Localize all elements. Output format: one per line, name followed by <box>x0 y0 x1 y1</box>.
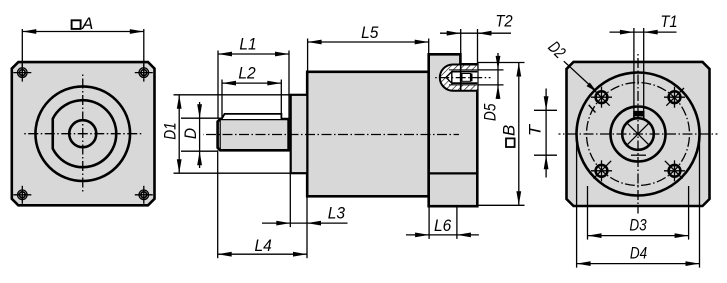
flange plate (front view, square with chamfered corners) <box>12 62 155 205</box>
tapped hole top-right <box>664 87 685 108</box>
corner hole top-left <box>13 64 31 82</box>
tapped hole outline stroke <box>440 65 477 91</box>
center crosshair horizontal <box>23 133 143 135</box>
collar disc D1 <box>291 95 308 173</box>
center crosshair vertical <box>637 52 639 214</box>
shaft chamfer line <box>219 119 221 150</box>
dimension L4 <box>217 150 219 258</box>
dimension D5 <box>478 69 504 71</box>
dimension T1 <box>633 28 635 111</box>
tapped hole bottom-left <box>591 160 612 181</box>
svg-text:L1: L1 <box>239 35 256 54</box>
tapped hole: outer outline hatched <box>440 65 477 91</box>
shaft centerline <box>203 134 459 136</box>
diagonal centerline 1 <box>592 88 684 180</box>
svg-text:D: D <box>181 128 200 139</box>
corner hole bottom-right <box>135 186 153 204</box>
flange step line <box>430 172 477 174</box>
keyway slot <box>634 111 644 117</box>
svg-text:D3: D3 <box>629 216 647 235</box>
dimension D <box>181 117 223 119</box>
svg-text:B: B <box>499 125 518 136</box>
T inner tick <box>631 154 646 156</box>
set screw in bore <box>460 74 463 82</box>
corner hole bottom-left <box>13 186 31 204</box>
dimension square-B <box>478 62 525 64</box>
key on shaft <box>222 114 282 119</box>
outer circle <box>35 86 130 181</box>
tapped hole bottom-right <box>664 160 685 181</box>
dimension L6 <box>428 207 430 239</box>
svg-text:D1: D1 <box>161 122 180 139</box>
label square-A <box>72 20 81 29</box>
svg-text:D4: D4 <box>630 244 647 263</box>
svg-text:T: T <box>526 123 545 136</box>
svg-text:L6: L6 <box>434 216 452 235</box>
dimension T2 <box>460 29 462 55</box>
thread depth line <box>460 65 462 91</box>
dimension D4 <box>576 134 578 268</box>
dimension L3 <box>289 173 291 227</box>
bore circle <box>69 120 96 147</box>
corner hole top-right <box>135 64 153 82</box>
dimension L2 <box>221 80 223 119</box>
dimension D1 <box>174 94 292 96</box>
mounting flange (side view) <box>429 54 478 206</box>
svg-text:D5: D5 <box>480 103 499 121</box>
svg-text:L2: L2 <box>238 64 256 83</box>
tick near hole <box>589 105 596 113</box>
center crosshair horizontal <box>559 133 718 135</box>
shaft D <box>218 119 289 150</box>
tapped hole top-left <box>591 87 612 108</box>
large pilot circle D4 <box>577 73 700 196</box>
center crosshair vertical <box>82 73 84 194</box>
tap hole centerline <box>434 77 491 79</box>
svg-text:L3: L3 <box>328 204 346 223</box>
dimension A: dim line <box>22 31 144 33</box>
dimension L5 <box>307 39 309 77</box>
dimension D3 <box>587 186 589 240</box>
thread major lines <box>449 69 477 71</box>
svg-text:T2: T2 <box>495 12 513 31</box>
svg-text:L5: L5 <box>361 23 379 42</box>
dimension A: extension lines <box>21 29 23 76</box>
middle circle with flat (D-shape hub) <box>53 100 117 167</box>
leader D2 <box>564 61 595 89</box>
bolt circle (dash-dot) <box>587 83 690 186</box>
dimension T (between views) <box>534 109 557 111</box>
svg-text:T1: T1 <box>660 12 677 31</box>
drill cone <box>446 72 452 84</box>
flange plate (rear view) <box>567 62 710 206</box>
svg-text:A: A <box>81 14 93 33</box>
middle circle <box>611 107 666 162</box>
dimension L1 <box>217 51 219 119</box>
svg-text:L4: L4 <box>254 236 271 255</box>
bore circle <box>622 118 654 150</box>
tapped hole thread zone white <box>452 70 478 85</box>
main body cylinder <box>307 72 429 197</box>
diagonal centerline 2 <box>592 88 684 180</box>
bore lines <box>452 71 478 73</box>
